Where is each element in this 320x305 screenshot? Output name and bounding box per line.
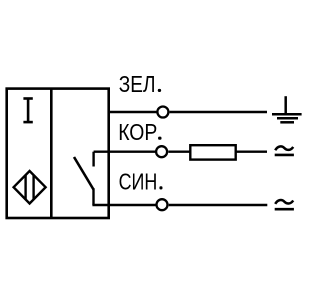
sensing face diamond	[14, 171, 46, 204]
switch blade (NO contact)	[74, 157, 94, 190]
inductive symbol I	[23, 99, 32, 123]
AC supply symbol bottom	[275, 200, 294, 209]
svg-text:ЗЕЛ: ЗЕЛ	[119, 71, 156, 97]
svg-text:КОР: КОР	[118, 119, 157, 145]
wire blue terminal to AC	[169, 204, 268, 206]
svg-text:СИН: СИН	[119, 169, 158, 195]
wire blue from switch to terminal	[92, 204, 156, 206]
wire brown terminal to resistor	[168, 150, 190, 152]
wire brown resistor to AC	[236, 150, 267, 152]
diamond inner line left	[24, 175, 26, 199]
AC supply symbol middle	[275, 146, 294, 154]
switch fixed contact post	[92, 152, 94, 167]
ground symbol	[272, 96, 302, 122]
sensor body divider	[50, 89, 53, 218]
terminal circle blue	[157, 199, 168, 210]
wire green from body to terminal	[109, 111, 157, 113]
switch lower post	[92, 188, 94, 205]
diamond inner line right	[32, 175, 34, 199]
wire green terminal to ground	[170, 111, 267, 113]
terminal circle green	[157, 107, 168, 118]
wire brown from switch to terminal	[94, 150, 156, 152]
terminal circle brown	[156, 146, 167, 157]
resistor	[190, 145, 235, 159]
sensor body rectangle	[7, 89, 109, 218]
